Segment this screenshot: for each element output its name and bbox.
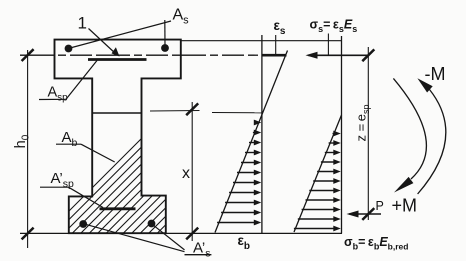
- moment arc right (with top arrowhead, -M): [418, 90, 446, 195]
- force P arrow head: [347, 211, 359, 218]
- leader A_sp to strand: [66, 61, 97, 100]
- strain arrow heads: [254, 120, 261, 226]
- hatching (compressed concrete zone): [40, 30, 386, 240]
- strain slant line: [215, 51, 288, 233]
- rebar dot A's left: [79, 220, 87, 228]
- tick x top: [186, 103, 198, 115]
- stress arrows: [294, 134, 338, 229]
- neutral axis extension line to x-dimension: [150, 110, 200, 113]
- top edge extension line to stress diagram: [181, 40, 342, 42]
- centroid dash-dot axis of prestressing steel: [20, 54, 258, 56]
- rebar dot A_s left: [65, 45, 73, 53]
- svg-text:x: x: [182, 165, 190, 182]
- dimension h_0 line: [27, 50, 29, 248]
- svg-text:1: 1: [78, 14, 87, 33]
- arrowhead +M: [394, 177, 413, 193]
- svg-text:+M: +M: [392, 196, 418, 216]
- neutral axis extension line to strain axis: [212, 112, 262, 114]
- tick x bottom: [186, 228, 198, 240]
- stress slant line: [294, 115, 342, 232]
- dimension z = e_sp line: [367, 47, 369, 220]
- tick h_0 bottom: [22, 228, 34, 240]
- sigma_s leader: [327, 34, 329, 55]
- prestressing strand line A_sp (top): [88, 58, 147, 61]
- dimension x line: [191, 102, 193, 241]
- force P arrow shaft: [349, 213, 381, 215]
- tick z bottom: [362, 208, 374, 220]
- tick z top: [362, 49, 374, 61]
- stress arrow heads: [333, 131, 341, 232]
- leader A_b to web: [81, 144, 115, 162]
- strain diagram axis: [261, 35, 263, 233]
- leader A_s to right dot: [164, 20, 166, 45]
- leader from 1 with arrow: [89, 29, 117, 55]
- moment arc left (with bottom arrowhead, +M): [393, 78, 426, 179]
- sigma_s arrow shaft: [308, 54, 368, 56]
- prestressing strand line A'_sp (bottom): [100, 207, 136, 210]
- stress diagram axis: [341, 36, 343, 233]
- leader A_s to left dot: [70, 21, 171, 48]
- rebar dot A's right: [148, 220, 156, 228]
- bottom datum line: [20, 232, 342, 234]
- rebar dot A_s right: [161, 44, 169, 52]
- svg-text:-M: -M: [425, 64, 446, 84]
- leader A'_sp to bottom strand: [69, 187, 104, 207]
- tick h_0 top: [22, 49, 34, 61]
- concrete I-section outline: [55, 40, 181, 234]
- epsilon_s leader: [275, 35, 277, 57]
- leader A's from right dot: [152, 224, 184, 250]
- leader A's from left dot: [86, 224, 185, 251]
- epsilon_s level mark: [262, 54, 287, 57]
- arrowhead -M: [417, 78, 432, 92]
- neutral axis line inside web (top of hatch): [92, 112, 141, 114]
- svg-text:P: P: [376, 199, 384, 213]
- strain arrows: [217, 123, 258, 223]
- sigma_s arrow head: [306, 52, 318, 59]
